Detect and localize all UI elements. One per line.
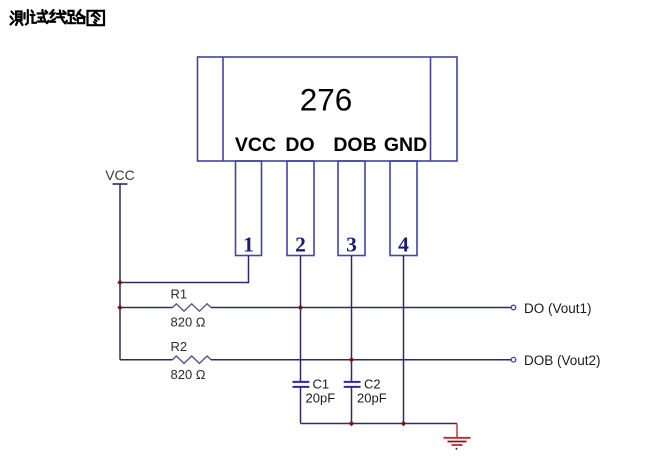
pin 1 lead rectangle — [236, 161, 262, 256]
junction ground row / C2 stub — [349, 421, 354, 426]
resistor R1 zigzag — [173, 304, 212, 311]
路 — [68, 11, 76, 23]
svg-text:276: 276 — [300, 81, 353, 117]
title 测试线路图 — [11, 10, 105, 25]
capacitor C1 plates — [293, 382, 310, 387]
wire ground row — [301, 423, 458, 425]
svg-text:2: 2 — [295, 233, 306, 257]
svg-text:GND: GND — [384, 134, 427, 156]
svg-text:3: 3 — [346, 233, 357, 257]
svg-text:1: 1 — [243, 233, 254, 257]
svg-text:VCC: VCC — [235, 134, 276, 156]
capacitor C2 plates — [344, 382, 361, 387]
svg-text:DO: DO — [285, 134, 314, 156]
svg-text:R1: R1 — [171, 287, 188, 302]
线 — [50, 10, 55, 22]
svg-text:C2: C2 — [364, 377, 381, 392]
svg-text:R2: R2 — [171, 339, 188, 354]
图 — [88, 11, 105, 25]
IC U1 body outline — [198, 57, 458, 161]
wire R2 row left segment — [120, 359, 173, 361]
wire pin2 vertical to C1 — [300, 256, 302, 382]
pin 2 lead rectangle — [287, 161, 314, 256]
wire pin1 to VCC rail — [120, 256, 249, 283]
VCC power symbol bar — [113, 183, 128, 185]
terminal DO (Vout1) — [511, 305, 516, 310]
svg-text:820 Ω: 820 Ω — [171, 315, 206, 330]
wire C1 bottom stub — [300, 387, 302, 424]
svg-text:4: 4 — [398, 233, 409, 257]
junction VCC rail / pin1 wire — [117, 280, 122, 285]
pin 4 lead rectangle — [390, 161, 417, 256]
svg-text:DO (Vout1): DO (Vout1) — [524, 301, 592, 316]
svg-text:C1: C1 — [313, 377, 330, 392]
ground symbol — [444, 424, 471, 450]
svg-text:820 Ω: 820 Ω — [171, 367, 206, 382]
junction ground row / pin4 wire — [401, 421, 406, 426]
pin 3 lead rectangle — [338, 161, 365, 256]
wire pin3 vertical to C2 — [351, 256, 353, 382]
junction VCC rail / R1 row — [117, 305, 122, 310]
svg-text:20pF: 20pF — [306, 391, 336, 406]
wire pin4 vertical to ground row — [403, 256, 405, 424]
wire R2 row right segment to DOB terminal — [211, 359, 511, 361]
测 — [11, 12, 15, 25]
wire R1 row left segment — [120, 307, 173, 309]
svg-text:DOB: DOB — [333, 134, 376, 156]
junction R2 row / pin3 branch — [349, 357, 354, 362]
junction R1 row / pin2 branch — [298, 305, 303, 310]
wire R1 row right segment to DO terminal — [211, 307, 511, 309]
terminal DOB (Vout2) — [511, 357, 516, 362]
svg-text:20pF: 20pF — [357, 391, 387, 406]
IC left tab divider — [222, 57, 224, 161]
wire VCC rail vertical — [119, 184, 121, 360]
wire C2 bottom stub — [351, 387, 353, 424]
试 — [31, 11, 37, 23]
resistor R2 zigzag — [173, 356, 212, 363]
svg-text:VCC: VCC — [105, 167, 135, 183]
IC right tab divider — [430, 57, 432, 161]
svg-text:DOB (Vout2): DOB (Vout2) — [524, 353, 601, 368]
